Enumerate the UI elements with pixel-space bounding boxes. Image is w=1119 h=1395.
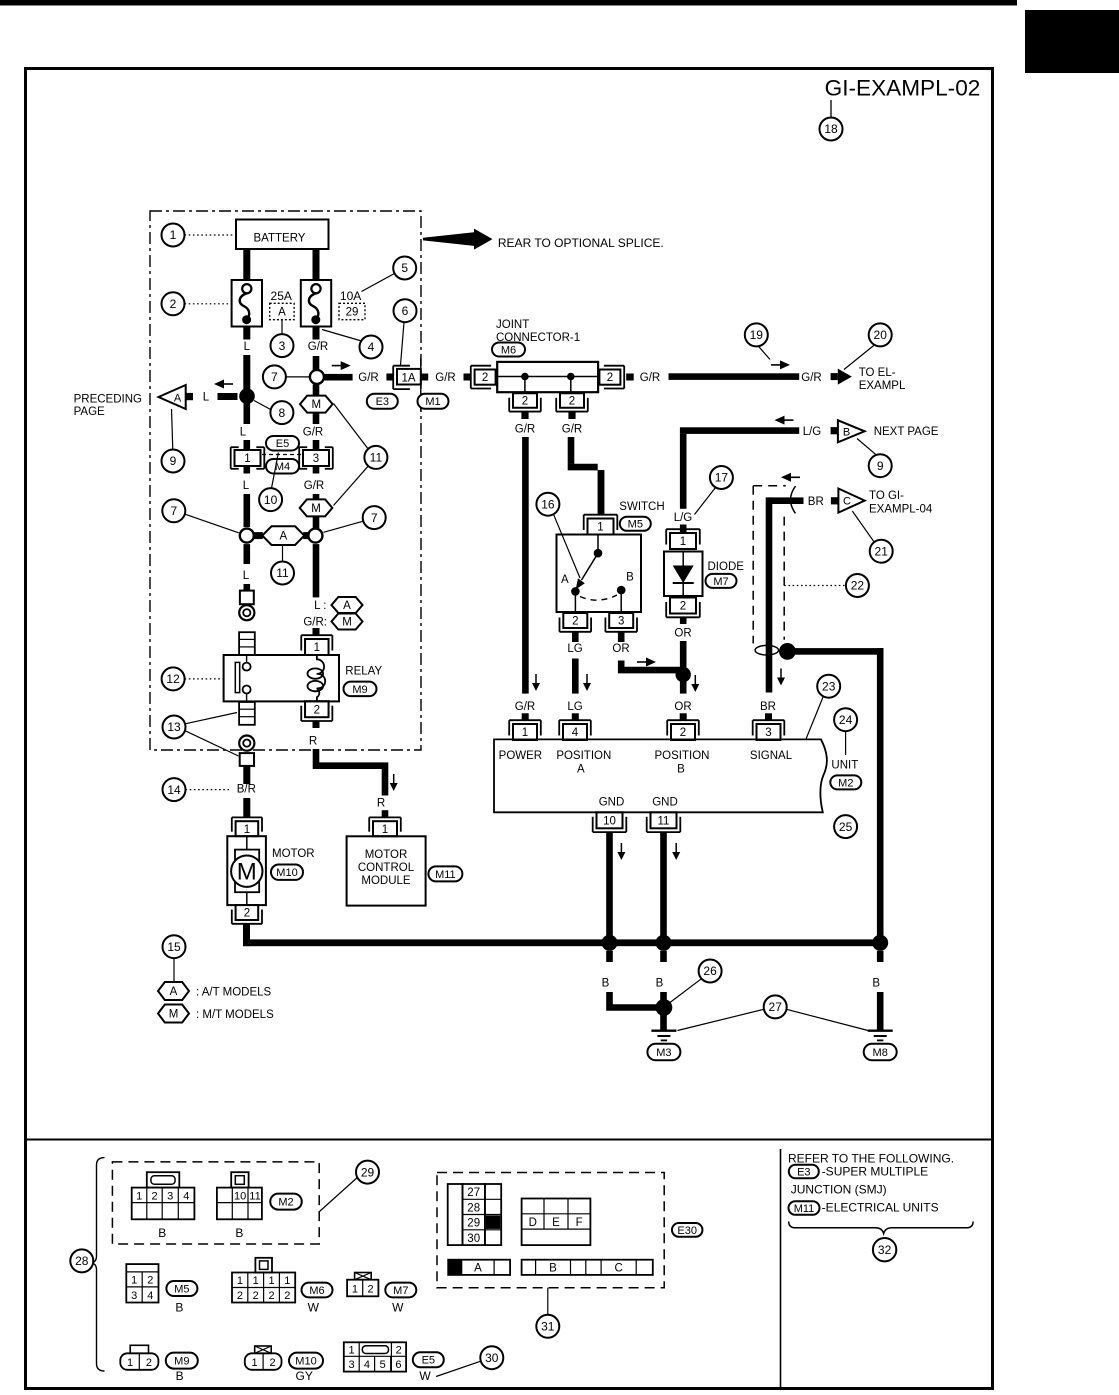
svg-text:M6: M6 — [309, 1285, 324, 1297]
svg-text:M7: M7 — [713, 576, 728, 588]
svg-text:7: 7 — [170, 504, 177, 518]
svg-text:2: 2 — [244, 908, 250, 920]
svg-text:TO GI-: TO GI- — [869, 490, 904, 502]
svg-text:G/R: G/R — [304, 480, 324, 492]
svg-text:BR: BR — [808, 496, 824, 508]
svg-text:M: M — [342, 617, 352, 629]
svg-text:L: L — [243, 480, 250, 492]
svg-text:20: 20 — [874, 328, 888, 342]
svg-text:3: 3 — [131, 1290, 137, 1302]
svg-text:29: 29 — [467, 1218, 480, 1230]
svg-text:10: 10 — [234, 1190, 246, 1202]
svg-text:2: 2 — [680, 601, 686, 613]
svg-text:4: 4 — [364, 1359, 370, 1371]
svg-text:A: A — [170, 986, 178, 998]
svg-text:SIGNAL: SIGNAL — [750, 750, 793, 762]
svg-text:6: 6 — [395, 1359, 401, 1371]
svg-text:BATTERY: BATTERY — [254, 233, 306, 245]
svg-text:PAGE: PAGE — [74, 406, 105, 418]
svg-text:11: 11 — [249, 1190, 260, 1202]
svg-text:B: B — [872, 978, 880, 990]
svg-text:L: L — [243, 570, 250, 582]
svg-text:9: 9 — [877, 459, 884, 473]
svg-text:10: 10 — [603, 815, 616, 827]
svg-text:B: B — [549, 1262, 557, 1274]
svg-text:A: A — [343, 600, 351, 612]
svg-text:1: 1 — [136, 1190, 142, 1202]
svg-text:25A: 25A — [271, 289, 292, 303]
svg-text:G/R:: G/R: — [303, 617, 327, 629]
svg-text:L :: L : — [314, 600, 326, 612]
svg-text:M11: M11 — [435, 869, 456, 881]
svg-text:B: B — [235, 1226, 243, 1240]
svg-text:1: 1 — [597, 522, 603, 534]
svg-text:C: C — [843, 496, 851, 508]
svg-text:19: 19 — [750, 328, 764, 342]
svg-text:A: A — [278, 307, 286, 319]
svg-text:21: 21 — [875, 544, 889, 558]
svg-text:G/R: G/R — [358, 372, 378, 384]
svg-text:1: 1 — [237, 1275, 243, 1287]
svg-text:M7: M7 — [393, 1285, 408, 1297]
svg-text:1: 1 — [244, 824, 250, 836]
svg-text:PRECEDING: PRECEDING — [74, 394, 142, 406]
svg-text:30: 30 — [467, 1233, 480, 1245]
svg-text:G/R: G/R — [435, 372, 455, 384]
svg-text:B: B — [602, 978, 610, 990]
svg-text:2: 2 — [569, 396, 575, 408]
svg-text:2: 2 — [147, 1274, 153, 1286]
svg-text:OR: OR — [674, 701, 691, 713]
svg-text:G/R: G/R — [515, 423, 535, 435]
svg-text:M4: M4 — [275, 461, 290, 473]
svg-text:2: 2 — [268, 1290, 274, 1302]
svg-text:MOTOR: MOTOR — [272, 848, 315, 860]
svg-text:11: 11 — [370, 451, 383, 465]
svg-text:2: 2 — [269, 1357, 275, 1369]
svg-text:W: W — [419, 1369, 431, 1383]
svg-text:CONTROL: CONTROL — [358, 862, 415, 874]
svg-text:27: 27 — [467, 1187, 480, 1199]
svg-text:M6: M6 — [501, 344, 516, 356]
svg-text:31: 31 — [541, 1320, 555, 1334]
svg-text:A: A — [279, 531, 287, 543]
svg-text:1: 1 — [382, 824, 388, 836]
svg-text:2: 2 — [237, 1290, 243, 1302]
svg-text:M8: M8 — [873, 1047, 888, 1059]
svg-text:G/R: G/R — [308, 341, 328, 353]
svg-text:EXAMPL-04: EXAMPL-04 — [869, 504, 933, 516]
svg-text:REFER TO THE FOLLOWING.: REFER TO THE FOLLOWING. — [788, 1152, 954, 1166]
svg-text:B: B — [626, 572, 634, 584]
svg-text:5: 5 — [401, 261, 408, 275]
svg-text:B: B — [176, 1369, 184, 1383]
svg-text:RELAY: RELAY — [345, 666, 382, 678]
svg-text:28: 28 — [75, 1254, 89, 1268]
svg-text:2: 2 — [314, 704, 320, 716]
svg-text:W: W — [392, 1301, 404, 1315]
svg-text:LG: LG — [567, 701, 582, 713]
svg-text:DIODE: DIODE — [708, 561, 745, 573]
svg-text:1: 1 — [170, 228, 177, 242]
svg-text:1: 1 — [522, 727, 528, 739]
svg-text:E3: E3 — [797, 1166, 810, 1178]
svg-text:L/G: L/G — [674, 512, 693, 524]
svg-text:10A: 10A — [340, 289, 361, 303]
svg-text:A: A — [577, 764, 585, 776]
svg-text:4: 4 — [147, 1290, 153, 1302]
svg-text:2: 2 — [146, 1357, 152, 1369]
svg-text:4: 4 — [368, 340, 375, 354]
svg-text:1: 1 — [131, 1274, 137, 1286]
svg-text:2: 2 — [482, 372, 488, 384]
svg-text:B: B — [158, 1226, 166, 1240]
svg-text:5: 5 — [380, 1359, 386, 1371]
svg-text:15: 15 — [167, 940, 181, 954]
svg-text:B: B — [843, 427, 850, 439]
svg-text:NEXT PAGE: NEXT PAGE — [874, 426, 939, 438]
svg-text:M10: M10 — [295, 1356, 316, 1368]
svg-text:GND: GND — [652, 797, 678, 809]
svg-text:M2: M2 — [838, 777, 853, 789]
svg-text:W: W — [308, 1301, 320, 1315]
svg-text:1: 1 — [348, 1345, 354, 1357]
svg-text:JOINT: JOINT — [496, 319, 529, 331]
svg-text:OR: OR — [674, 628, 691, 640]
svg-text:9: 9 — [170, 454, 177, 468]
svg-text:MODULE: MODULE — [361, 875, 411, 887]
svg-text:E3: E3 — [376, 396, 389, 408]
svg-text:M: M — [169, 1009, 179, 1021]
svg-text:1: 1 — [268, 1275, 274, 1287]
svg-text:-ELECTRICAL UNITS: -ELECTRICAL UNITS — [822, 1201, 939, 1215]
svg-text:3: 3 — [313, 453, 319, 465]
svg-text:1: 1 — [251, 1357, 257, 1369]
svg-text:G/R: G/R — [801, 372, 821, 384]
svg-text:6: 6 — [402, 304, 409, 318]
svg-text:25: 25 — [839, 820, 853, 834]
svg-text:L/G: L/G — [803, 426, 822, 438]
svg-text:GND: GND — [599, 797, 625, 809]
svg-text:B: B — [677, 764, 685, 776]
svg-text:1: 1 — [127, 1357, 133, 1369]
svg-text:M10: M10 — [276, 867, 297, 879]
svg-text:29: 29 — [361, 1165, 375, 1179]
svg-text:7: 7 — [371, 511, 378, 525]
svg-text:7: 7 — [271, 370, 278, 384]
svg-text:M5: M5 — [628, 519, 643, 531]
svg-text:23: 23 — [822, 679, 836, 693]
svg-text:UNIT: UNIT — [831, 760, 858, 772]
svg-text:16: 16 — [541, 497, 555, 511]
svg-text:B/R: B/R — [237, 784, 256, 796]
svg-text:4: 4 — [572, 727, 579, 739]
svg-text:18: 18 — [824, 122, 838, 136]
svg-text:M1: M1 — [425, 396, 440, 408]
svg-text:14: 14 — [167, 783, 181, 797]
svg-text:R: R — [309, 736, 317, 748]
svg-text:BR: BR — [760, 701, 776, 713]
svg-text:M2: M2 — [278, 1197, 293, 1209]
svg-text:GY: GY — [296, 1369, 313, 1383]
svg-text:REAR TO OPTIONAL SPLICE.: REAR TO OPTIONAL SPLICE. — [498, 236, 664, 250]
svg-text:G/R: G/R — [515, 701, 535, 713]
svg-text:A: A — [174, 392, 182, 404]
svg-text:1: 1 — [253, 1275, 259, 1287]
svg-text:OR: OR — [612, 643, 629, 655]
svg-text:G/R: G/R — [562, 423, 582, 435]
svg-text:B: B — [656, 978, 664, 990]
svg-text:2: 2 — [253, 1290, 259, 1302]
svg-text:POSITION: POSITION — [556, 750, 611, 762]
svg-text:G/R: G/R — [640, 372, 660, 384]
svg-text:JUNCTION (SMJ): JUNCTION (SMJ) — [791, 1183, 887, 1197]
svg-text:3: 3 — [765, 727, 771, 739]
svg-text:E5: E5 — [422, 1355, 435, 1367]
svg-text:3: 3 — [618, 616, 624, 628]
svg-text:SWITCH: SWITCH — [619, 501, 664, 513]
svg-text:M3: M3 — [656, 1047, 671, 1059]
svg-text:32: 32 — [878, 1243, 892, 1257]
svg-text:L: L — [203, 392, 210, 404]
svg-text:POWER: POWER — [499, 750, 542, 762]
svg-text:1A: 1A — [401, 372, 415, 384]
svg-text:11: 11 — [276, 566, 289, 580]
svg-text:G/R: G/R — [303, 427, 323, 439]
svg-text:2: 2 — [572, 616, 578, 628]
svg-text:A: A — [474, 1262, 482, 1274]
svg-text:: A/T MODELS: : A/T MODELS — [196, 987, 272, 999]
svg-text:EXAMPL: EXAMPL — [859, 380, 906, 392]
svg-text:1: 1 — [680, 536, 686, 548]
svg-text:3: 3 — [279, 339, 286, 353]
svg-text:M: M — [312, 399, 322, 411]
svg-text:LG: LG — [567, 643, 582, 655]
svg-text:22: 22 — [851, 579, 865, 593]
svg-text:M: M — [237, 859, 257, 886]
svg-text:27: 27 — [769, 1000, 783, 1014]
svg-text:E30: E30 — [677, 1225, 697, 1237]
svg-text:M9: M9 — [174, 1356, 189, 1368]
svg-text:11: 11 — [658, 815, 670, 827]
svg-text:GI-EXAMPL-02: GI-EXAMPL-02 — [825, 76, 981, 101]
svg-text:MOTOR: MOTOR — [365, 849, 408, 861]
svg-text:L: L — [240, 427, 247, 439]
svg-text:28: 28 — [467, 1202, 480, 1214]
svg-text:E: E — [552, 1217, 560, 1229]
svg-text:13: 13 — [167, 720, 181, 734]
svg-text:2: 2 — [151, 1190, 157, 1202]
svg-text:-SUPER MULTIPLE: -SUPER MULTIPLE — [822, 1165, 928, 1179]
svg-text:1: 1 — [244, 453, 250, 465]
svg-text:2: 2 — [680, 727, 686, 739]
svg-text:26: 26 — [703, 964, 717, 978]
svg-text:E5: E5 — [276, 438, 289, 450]
svg-text:2: 2 — [396, 1345, 402, 1357]
svg-text:17: 17 — [715, 471, 729, 485]
svg-text:2: 2 — [367, 1283, 373, 1295]
svg-text:D: D — [529, 1217, 537, 1229]
svg-text:2: 2 — [607, 372, 613, 384]
svg-text:4: 4 — [183, 1190, 189, 1202]
svg-text:1: 1 — [284, 1275, 290, 1287]
svg-text:POSITION: POSITION — [655, 750, 710, 762]
svg-text:24: 24 — [839, 713, 853, 727]
svg-text:TO EL-: TO EL- — [859, 367, 896, 379]
svg-text:L: L — [244, 341, 251, 353]
svg-text:M9: M9 — [352, 684, 367, 696]
svg-text:: M/T MODELS: : M/T MODELS — [196, 1009, 274, 1021]
svg-text:3: 3 — [167, 1190, 173, 1202]
svg-text:R: R — [377, 798, 385, 810]
svg-text:2: 2 — [284, 1290, 290, 1302]
svg-text:12: 12 — [166, 672, 180, 686]
svg-text:3: 3 — [348, 1359, 354, 1371]
svg-text:B: B — [175, 1301, 183, 1315]
svg-text:2: 2 — [522, 396, 528, 408]
svg-text:30: 30 — [485, 1351, 499, 1365]
svg-text:10: 10 — [264, 493, 278, 507]
svg-text:29: 29 — [346, 307, 359, 319]
svg-text:C: C — [614, 1262, 622, 1274]
svg-text:A: A — [561, 574, 569, 586]
svg-text:M5: M5 — [174, 1283, 189, 1295]
svg-text:M: M — [311, 503, 321, 515]
svg-text:F: F — [576, 1217, 583, 1229]
svg-text:8: 8 — [279, 406, 286, 420]
svg-text:2: 2 — [170, 297, 177, 311]
svg-text:M11: M11 — [794, 1203, 815, 1215]
svg-text:1: 1 — [314, 642, 320, 654]
svg-text:1: 1 — [352, 1283, 358, 1295]
